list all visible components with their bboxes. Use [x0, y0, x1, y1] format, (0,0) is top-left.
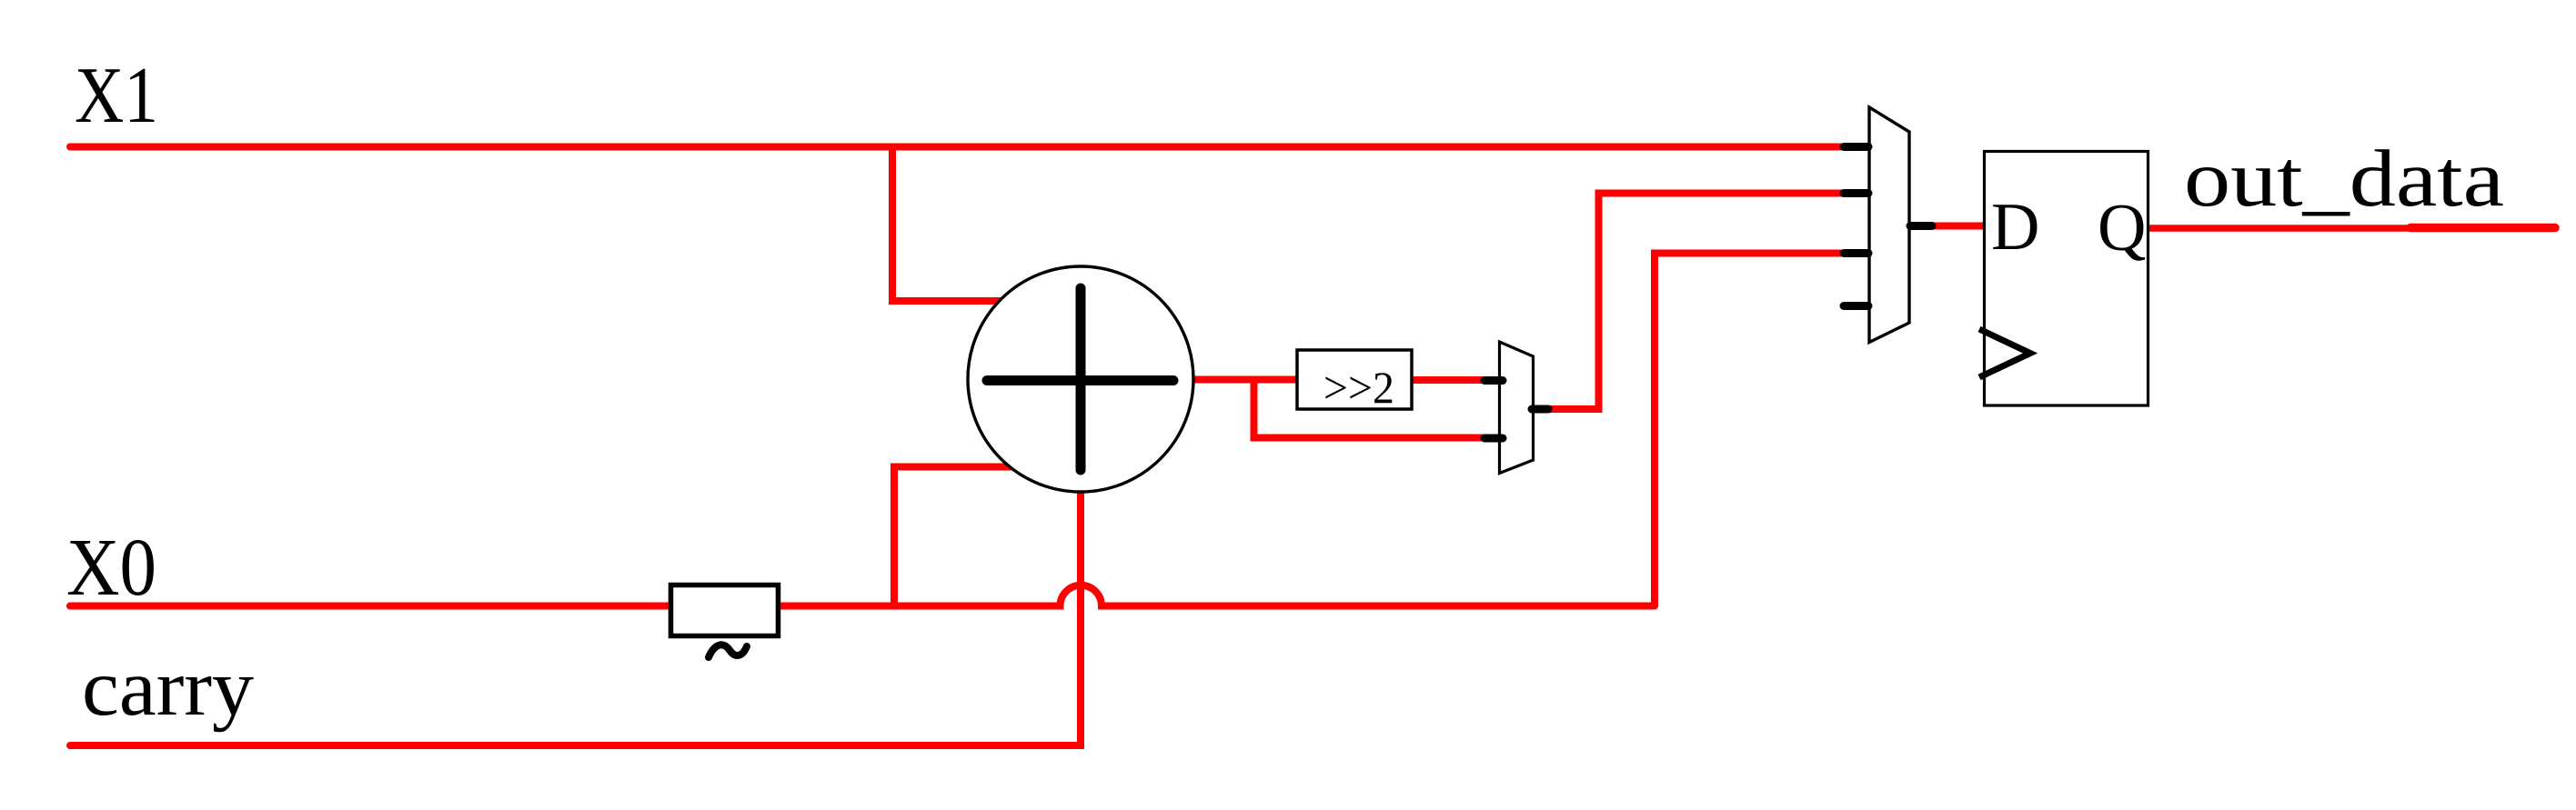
svg-text:>>2: >>2	[1323, 362, 1394, 413]
node label X1	[75, 52, 158, 140]
flip-flop clock chevron	[1979, 329, 2030, 377]
big mux pin 3 stub	[1844, 249, 1868, 257]
small mux output stub	[1532, 405, 1548, 414]
inverter tilde label	[709, 645, 747, 657]
inverter box	[671, 585, 779, 636]
wire inverted-X0 riser to big mux pin 3	[1655, 254, 1848, 606]
big mux output stub	[1910, 222, 1932, 230]
wire inverted-X0 branch up to adder lower input	[894, 467, 1019, 606]
svg-text:Q: Q	[2098, 191, 2146, 265]
svg-text:out_data: out_data	[2184, 135, 2504, 224]
big mux pin 4 stub	[1844, 302, 1868, 310]
small mux pin 1 stub	[1484, 376, 1503, 385]
wire small mux output up to big mux pin 2	[1546, 194, 1848, 410]
svg-text:carry: carry	[82, 644, 255, 733]
big mux pin 2 stub	[1844, 189, 1868, 197]
wire X1 branch down to adder upper input	[892, 147, 1010, 302]
wire carry to adder bottom	[70, 486, 1081, 745]
node label carry	[82, 644, 255, 733]
shifter box >>2	[1297, 350, 1412, 409]
wire Q output out_data	[2148, 225, 2555, 232]
svg-text:X1: X1	[75, 52, 158, 140]
wire adder output to shifter	[1182, 376, 1298, 384]
big mux pin 1 stub	[1844, 143, 1868, 151]
node label out_data	[2184, 135, 2504, 224]
adder plus sign	[987, 288, 1173, 470]
svg-text:X0: X0	[66, 523, 156, 613]
shifter label >>2	[1323, 362, 1394, 413]
flip-flop D pin label	[1991, 190, 2039, 265]
small mux pin 2 stub	[1484, 435, 1503, 443]
flip-flop Q pin label	[2098, 191, 2146, 265]
flip-flop U2 box	[1985, 152, 2148, 406]
wire X0 line with hop over carry	[70, 585, 1655, 606]
wire X1 main horizontal	[70, 144, 1848, 151]
node label X0	[66, 523, 156, 613]
svg-text:D: D	[1991, 190, 2039, 265]
adder U1 circle	[968, 266, 1193, 492]
wire shifter output to small mux pin 1	[1410, 376, 1494, 384]
wire adder output branch to small mux pin 2	[1254, 380, 1493, 438]
wire big mux output to D input	[1930, 223, 1985, 230]
small mux M2	[1500, 342, 1534, 474]
big mux M1	[1869, 107, 1909, 343]
